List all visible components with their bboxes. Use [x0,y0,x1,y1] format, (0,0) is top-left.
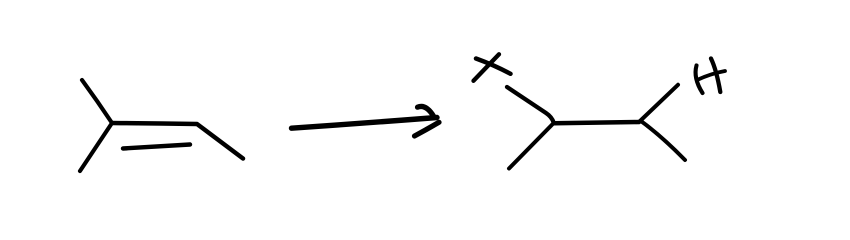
product bond from X to carbon 2 [507,87,554,123]
product bond carbon 2 to carbon 3 [554,122,639,123]
product atom label X: stroke two [474,54,500,81]
reaction arrow head top stroke [418,106,435,116]
product bond carbon 3 lower-right methyl [641,121,686,160]
product atom label H: crossbar stroke [697,71,725,80]
reactant alkene: double bond inner line [123,145,190,149]
reactant alkene: main chain C=C top line with CH bend [112,123,243,159]
product atom label H: left vertical stroke [696,66,703,94]
product atom label H: right vertical stroke [711,59,720,93]
reaction arrow head bottom stroke [415,122,440,136]
reactant alkene: lower-left methyl bond [80,123,112,171]
product bond carbon 2 lower-left methyl [509,123,554,169]
product atom label X: stroke one [476,59,511,74]
product bond carbon 3 upper-right to H [639,85,678,122]
reactant alkene: upper-left methyl bond [82,80,112,123]
reaction arrow shaft [292,118,438,129]
